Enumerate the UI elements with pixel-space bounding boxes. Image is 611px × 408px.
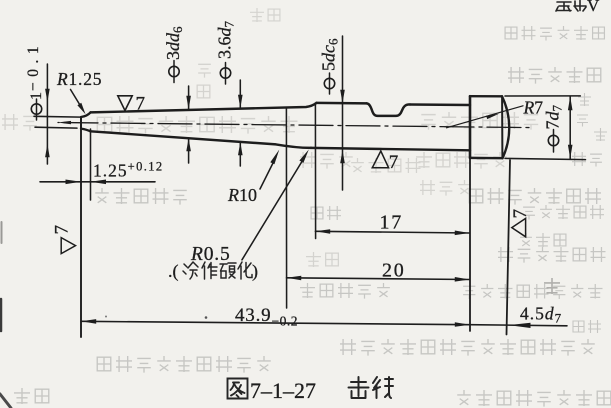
part outline: taper top edge and step fillet — [91, 103, 317, 113]
svg-text:7–1–27: 7–1–27 — [250, 378, 316, 403]
part outline: R7 dome arc — [502, 96, 509, 158]
part outline: head top edge — [470, 95, 502, 98]
page edge marks — [0, 299, 2, 331]
dimension phi1 line and arrows — [46, 64, 48, 164]
dimension phi3dd6 line and arrows — [188, 86, 190, 110]
svg-text:R0.5: R0.5 — [190, 244, 231, 265]
part outline: phi5 bottom edge — [311, 148, 470, 150]
svg-text:7: 7 — [389, 152, 399, 173]
extra-faint ghost rows behind drawing — [2, 8, 538, 267]
dimension phi7d7 line and arrows — [569, 96, 571, 159]
dimension phi5dc6 line and arrows — [342, 36, 344, 190]
dimension 17 line and arrows — [315, 231, 469, 233]
center line axis — [58, 123, 533, 128]
svg-text:R7: R7 — [523, 98, 544, 118]
svg-text:3.6d7: 3.6d7 — [215, 21, 237, 60]
dimension 20 extension line — [285, 108, 287, 308]
caption glyph zhen — [373, 377, 393, 398]
svg-text:7: 7 — [510, 209, 531, 219]
part outline: notch groove — [367, 103, 410, 116]
extension line from tip face down to 43.9 — [80, 129, 82, 337]
part outline: phi5 top edge right of notch — [410, 103, 470, 106]
svg-text:1−0.1: 1−0.1 — [25, 41, 45, 100]
glyph leng — [183, 262, 198, 279]
part outline: taper bottom edge and R10 fillet — [91, 131, 312, 148]
part outline: dome tangent line — [501, 96, 503, 158]
part outline: flare R1.25 bottom — [81, 129, 91, 132]
svg-text:): ) — [252, 261, 258, 282]
dimension 1.25 extension line right — [90, 129, 92, 200]
label phi5dc6 (rotated) — [324, 78, 334, 88]
glyph hua — [238, 262, 252, 279]
label phi1 -0.1 (rotated) — [31, 104, 41, 114]
dimension 43.9 extension lines — [469, 159, 471, 331]
glyph ying — [220, 263, 236, 278]
svg-text:1.25+0.12: 1.25+0.12 — [93, 160, 164, 181]
surface mark nabla7 top — [118, 96, 132, 111]
dimension phi7d7 extension lines — [505, 95, 580, 97]
svg-text:43.9−0.2: 43.9−0.2 — [235, 305, 298, 329]
caption glyph ji — [349, 377, 369, 398]
dimension 4.5d7 line and arrow — [470, 325, 567, 326]
svg-text:.(: .( — [168, 261, 179, 282]
caption figure number glyph tu — [228, 379, 248, 399]
dimension 43.9 line and arrows — [81, 321, 470, 324]
svg-text:20: 20 — [382, 260, 406, 282]
part outline: tip face — [80, 117, 82, 129]
svg-text:4.5d7: 4.5d7 — [520, 304, 562, 326]
svg-text:V: V — [587, 0, 600, 15]
part outline: head bottom edge — [470, 157, 503, 160]
svg-text:7d7: 7d7 — [543, 105, 565, 130]
svg-text:7: 7 — [136, 94, 146, 115]
label phi3dd6 (rotated) — [169, 66, 179, 76]
svg-text:17: 17 — [380, 212, 404, 234]
svg-text:3dd6: 3dd6 — [163, 26, 185, 60]
dimension phi1 extension lines — [34, 115, 81, 118]
surface mark nabla7 left (rotated) — [61, 238, 75, 254]
dimension 17 extension line — [314, 104, 316, 239]
part outline: phi5 top edge left of notch — [317, 102, 367, 105]
svg-text:5dc6: 5dc6 — [319, 38, 341, 71]
part outline: head left face — [469, 96, 472, 158]
dimension 1.25 line and arrows — [40, 181, 155, 183]
part outline: flare R1.25 top — [81, 112, 91, 117]
axis left arrow — [58, 121, 72, 124]
surface mark triangle7 right (rotated) — [512, 218, 526, 236]
label phi7d7 (rotated) — [548, 135, 558, 145]
glyph zuo — [202, 262, 217, 279]
dimension phi3.6d7 line and arrows — [239, 80, 241, 109]
label phi3.6d7 (rotated) — [220, 68, 230, 78]
speck marks — [205, 316, 208, 319]
svg-text:R1.25: R1.25 — [56, 69, 102, 89]
header truncated glyphs top right — [556, 1, 586, 12]
svg-text:R10: R10 — [227, 185, 257, 205]
dimension 20 line and arrows — [287, 278, 470, 280]
svg-text:7: 7 — [52, 225, 73, 235]
surface mark triangle7 middle — [372, 151, 388, 168]
